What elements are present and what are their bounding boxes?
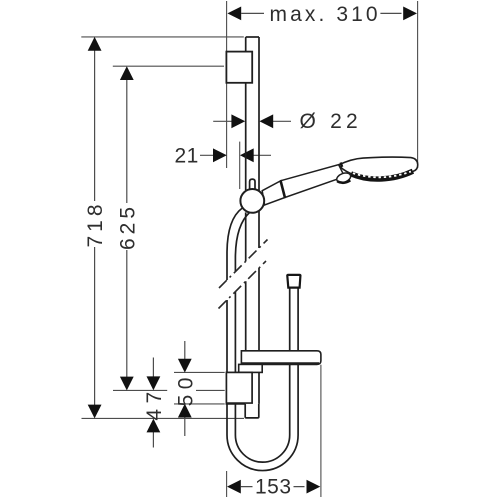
slider knob — [250, 179, 255, 191]
soap dish shelf — [241, 351, 321, 365]
svg-text:718: 718 — [84, 200, 107, 247]
extension line 50 bottom — [174, 403, 225, 405]
dimension 47 — [143, 358, 166, 448]
svg-text:153: 153 — [255, 476, 292, 499]
hose end nut — [287, 275, 300, 288]
slider roller circle — [240, 189, 264, 213]
handle cone — [262, 181, 285, 205]
extension line 153 right — [320, 365, 322, 497]
pivot dark crescent — [337, 180, 350, 183]
dimension 21 — [175, 145, 272, 168]
head top tick — [341, 163, 343, 167]
break mark lower — [219, 261, 267, 309]
dimension diameter 22 — [213, 110, 362, 133]
extension line rail top — [81, 36, 244, 38]
extension line bracket center — [113, 65, 224, 67]
extension line 153 left — [226, 471, 228, 497]
extension line right (max reach) — [417, 1, 419, 168]
rail end piece — [245, 404, 259, 418]
svg-text:max. 310: max. 310 — [270, 3, 381, 26]
dimension 625 — [116, 66, 139, 390]
dimension max. 310 — [227, 3, 417, 26]
nozzle dashes — [353, 172, 411, 178]
bottom slider box — [226, 372, 252, 404]
spray face dark band — [351, 171, 413, 179]
dimension 50 — [174, 341, 197, 436]
shower head — [339, 157, 418, 180]
svg-text:Ø 22: Ø 22 — [300, 110, 362, 133]
hose U-bend — [227, 435, 298, 471]
wall bracket — [226, 52, 252, 83]
shelf collar — [239, 364, 263, 372]
svg-text:625: 625 — [116, 203, 139, 250]
dimension 718 — [84, 37, 107, 419]
svg-text:21: 21 — [175, 145, 199, 168]
extension line 50 top — [174, 371, 225, 373]
hose right run — [290, 288, 298, 435]
pivot ball — [335, 171, 352, 184]
dimension 153 — [227, 476, 320, 499]
wall bar rail tube — [246, 37, 259, 404]
extension line 21 right (slider edge) — [239, 142, 241, 189]
extension line 625 bottom — [113, 389, 225, 391]
break mark upper — [219, 240, 268, 289]
svg-text:47: 47 — [143, 386, 166, 420]
wall extension line left — [226, 1, 228, 168]
extension line 718 bottom — [82, 417, 245, 419]
handle joint line — [281, 181, 285, 198]
handle grip — [281, 165, 345, 198]
svg-text:50: 50 — [174, 372, 197, 406]
hose left run — [227, 208, 250, 435]
